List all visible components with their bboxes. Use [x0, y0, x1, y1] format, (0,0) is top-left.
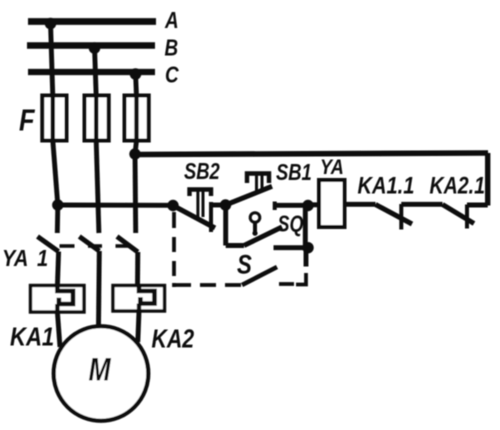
- svg-text:YA: YA: [320, 156, 344, 180]
- label YA1: [2, 245, 48, 272]
- node: SB1 right / SQ branch top: [302, 200, 313, 211]
- wire: phase 1 from bus A to fuse F1: [51, 22, 53, 97]
- SQ actuator pin (circle and stem): [250, 213, 260, 236]
- wire: phase 3 from bus C to fuse F3: [136, 72, 137, 97]
- button SB1 blade (NO): [226, 186, 273, 205]
- button SB2 fixed contact bar: [209, 202, 213, 232]
- upper control line from phase3 to right edge: [135, 153, 488, 155]
- label SB2: [184, 159, 220, 184]
- svg-text:M: M: [89, 352, 112, 388]
- wire: phase 1 fuse to control tap: [53, 141, 58, 206]
- wire: node to YA coil: [308, 202, 319, 207]
- current relay KA1 (box with winding loop): [31, 286, 85, 313]
- wire: SQ branch right riser: [303, 206, 308, 249]
- current relay KA2 (box with winding loop): [113, 286, 165, 312]
- lower control line from phase1 to SB2: [58, 203, 173, 208]
- wire: KA2 to motor: [138, 311, 139, 342]
- mechanical link (dashed) of contactor YA1: [60, 244, 130, 248]
- wire: YA coil to contact KA1.1: [345, 202, 376, 207]
- wire: phase 3 down to contact YA1.3: [133, 154, 139, 233]
- wire: phase 3 fuse to top control tap: [135, 141, 137, 155]
- wire: phase 1 to contact YA1.1: [55, 205, 60, 233]
- contact YA1.2 blade (phase 2): [79, 237, 99, 252]
- contact KA1.1 blade: [376, 205, 413, 225]
- switch S enclosure dashed bottom left: [174, 283, 241, 287]
- coil YA rectangle: [319, 180, 345, 227]
- node: SB2/SB1 common terminal: [220, 199, 231, 210]
- wire: phase 3 blade to relay KA2: [135, 252, 140, 286]
- wire: KA1 to motor: [57, 312, 60, 347]
- node: bus A tap junction: [45, 18, 57, 30]
- svg-text:C: C: [165, 63, 179, 88]
- svg-text:SB2: SB2: [184, 159, 220, 184]
- svg-text:B: B: [165, 36, 179, 61]
- wire: KA1.1 to KA2.1: [401, 202, 442, 207]
- wire: phase 2 from bus B to fuse F2: [95, 46, 97, 97]
- svg-text:KA1: KA1: [10, 323, 54, 352]
- label B: [165, 36, 179, 61]
- contact KA2.1 fixed bar: [465, 205, 469, 229]
- label C: [165, 63, 179, 88]
- contact YA1.3 blade (phase 3): [117, 237, 138, 253]
- bus C: [28, 69, 155, 75]
- fuse F3 (phase 3): [125, 96, 149, 141]
- node: SQ right junction: [302, 242, 313, 253]
- wire: SB1 to node: [275, 203, 308, 208]
- svg-text:KA2.1: KA2.1: [430, 171, 486, 199]
- node: phase3 / upper control line junction: [129, 148, 140, 159]
- svg-text:S: S: [237, 251, 252, 281]
- label KA1.1: [358, 172, 415, 199]
- label SB1: [276, 160, 312, 185]
- svg-text:SQ: SQ: [278, 211, 304, 237]
- svg-text:YA: YA: [2, 245, 28, 272]
- bus B: [27, 42, 155, 48]
- wire: SQ fixed terminal to right node: [274, 245, 307, 250]
- fuse F2 (phase 2): [85, 96, 109, 141]
- wire: right edge drop: [485, 153, 490, 206]
- label A: [164, 8, 179, 33]
- label M: [89, 352, 112, 388]
- wire: phase 2 blade to motor: [96, 251, 102, 327]
- wire: phase 1 blade to relay KA1: [57, 252, 58, 287]
- switch S enclosure dashed bottom right: [279, 273, 306, 285]
- button SB1 actuator: [247, 174, 269, 192]
- contact KA2.1 blade: [443, 205, 475, 224]
- button SB2 actuator: [190, 190, 212, 218]
- button SB2 blade (NC): [173, 206, 215, 229]
- label KA2.1: [430, 171, 486, 199]
- fuse F1 (phase 1): [42, 96, 66, 141]
- motor M circle: [54, 326, 149, 421]
- button SB1 fixed contact tick: [273, 202, 277, 211]
- label KA2: [152, 325, 195, 355]
- label S: [237, 251, 252, 281]
- svg-text:KA2: KA2: [152, 325, 195, 355]
- svg-text:A: A: [164, 8, 179, 33]
- label YA: [320, 156, 344, 180]
- wire: SQ branch lower left: [226, 243, 244, 248]
- wire: stub below SQ junction: [304, 248, 309, 267]
- node: SB2 left terminal: [167, 200, 178, 211]
- switch S enclosure dashed left side: [172, 212, 176, 287]
- label KA1: [10, 323, 54, 352]
- svg-text:KA1.1: KA1.1: [358, 172, 415, 199]
- bus A: [28, 18, 156, 25]
- node: bus B tap junction: [89, 42, 101, 54]
- wire: phase 2 fuse down to contact YA1.2: [96, 141, 99, 234]
- switch S blade: [242, 267, 277, 285]
- wire: SB2 bar to right node: [211, 203, 226, 208]
- svg-text:SB1: SB1: [276, 160, 312, 185]
- node: bus C tap junction: [130, 68, 142, 80]
- wire: SQ branch left drop: [223, 205, 228, 246]
- svg-text:F: F: [19, 103, 35, 138]
- svg-text:1: 1: [37, 245, 48, 272]
- travel switch SQ blade: [244, 227, 282, 246]
- contact YA1.1 blade (phase 1): [38, 237, 59, 252]
- contact KA1.1 fixed bar: [399, 204, 403, 230]
- label F: [19, 103, 35, 138]
- wire: KA2.1 to right edge: [467, 203, 488, 208]
- node: phase1 / control line junction: [52, 199, 63, 210]
- label SQ: [278, 211, 304, 237]
